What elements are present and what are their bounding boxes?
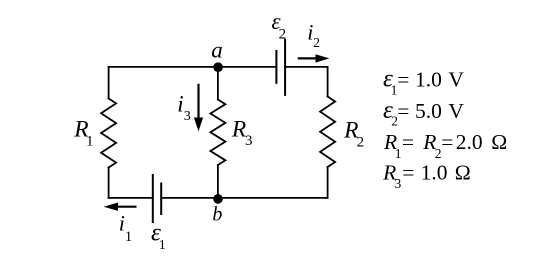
wire left lower segment <box>108 168 110 198</box>
svg-text:3: 3 <box>395 176 402 191</box>
current arrow i1 (points left) <box>104 203 137 211</box>
svg-text:3: 3 <box>245 133 253 149</box>
wire middle upper segment (node a down) <box>217 67 219 100</box>
svg-text:2.0: 2.0 <box>456 130 483 154</box>
svg-text:V: V <box>448 67 464 91</box>
battery e1 long plate <box>152 174 154 223</box>
svg-text:Ω: Ω <box>491 130 507 154</box>
value text line 2 <box>383 97 464 129</box>
wire bottom: left corner to battery e1 long plate <box>109 197 153 199</box>
svg-text:=: = <box>397 67 409 91</box>
battery e1 short plate <box>160 183 162 216</box>
svg-text:R: R <box>231 117 246 143</box>
svg-text:V: V <box>448 99 464 123</box>
svg-text:2: 2 <box>279 27 287 43</box>
svg-text:2: 2 <box>313 35 320 50</box>
wire middle lower segment (to node b) <box>217 165 219 198</box>
svg-text:1: 1 <box>159 238 166 253</box>
svg-text:1.0: 1.0 <box>415 67 442 91</box>
resistor R3 <box>210 100 225 166</box>
value text line 3 <box>383 130 507 161</box>
svg-text:3: 3 <box>184 109 191 124</box>
svg-text:1: 1 <box>125 229 133 245</box>
wire right upper segment <box>327 67 329 97</box>
svg-text:=: = <box>402 130 414 154</box>
svg-text:1.0: 1.0 <box>421 160 448 184</box>
value text line 1 <box>383 65 464 97</box>
svg-text:b: b <box>212 203 222 225</box>
svg-text:=: = <box>402 160 414 184</box>
resistor R1 <box>101 99 116 168</box>
svg-text:2: 2 <box>357 135 365 151</box>
node b junction dot <box>213 194 223 204</box>
wire left upper segment <box>108 67 110 99</box>
svg-text:=: = <box>397 99 409 123</box>
battery e2 long plate <box>284 39 286 96</box>
current arrow i3 (points down) <box>194 84 203 132</box>
svg-text:1: 1 <box>395 146 402 161</box>
wire top: battery e2 long plate to right corner <box>285 66 328 68</box>
svg-text:5.0: 5.0 <box>415 99 442 123</box>
current arrow i2 (points right) <box>298 54 330 62</box>
svg-text:=: = <box>441 130 453 154</box>
battery e2 short plate <box>275 50 277 84</box>
wire bottom: battery e1 short plate to node b and right corner <box>161 197 327 199</box>
svg-text:Ω: Ω <box>455 160 471 184</box>
resistor R2 <box>320 97 335 168</box>
svg-text:1: 1 <box>86 133 94 149</box>
wire right lower segment <box>327 167 329 198</box>
value text line 4 <box>382 160 471 191</box>
svg-text:a: a <box>211 38 223 63</box>
node a junction dot <box>213 62 223 72</box>
wire top: left corner to battery e2 short plate <box>109 66 277 68</box>
